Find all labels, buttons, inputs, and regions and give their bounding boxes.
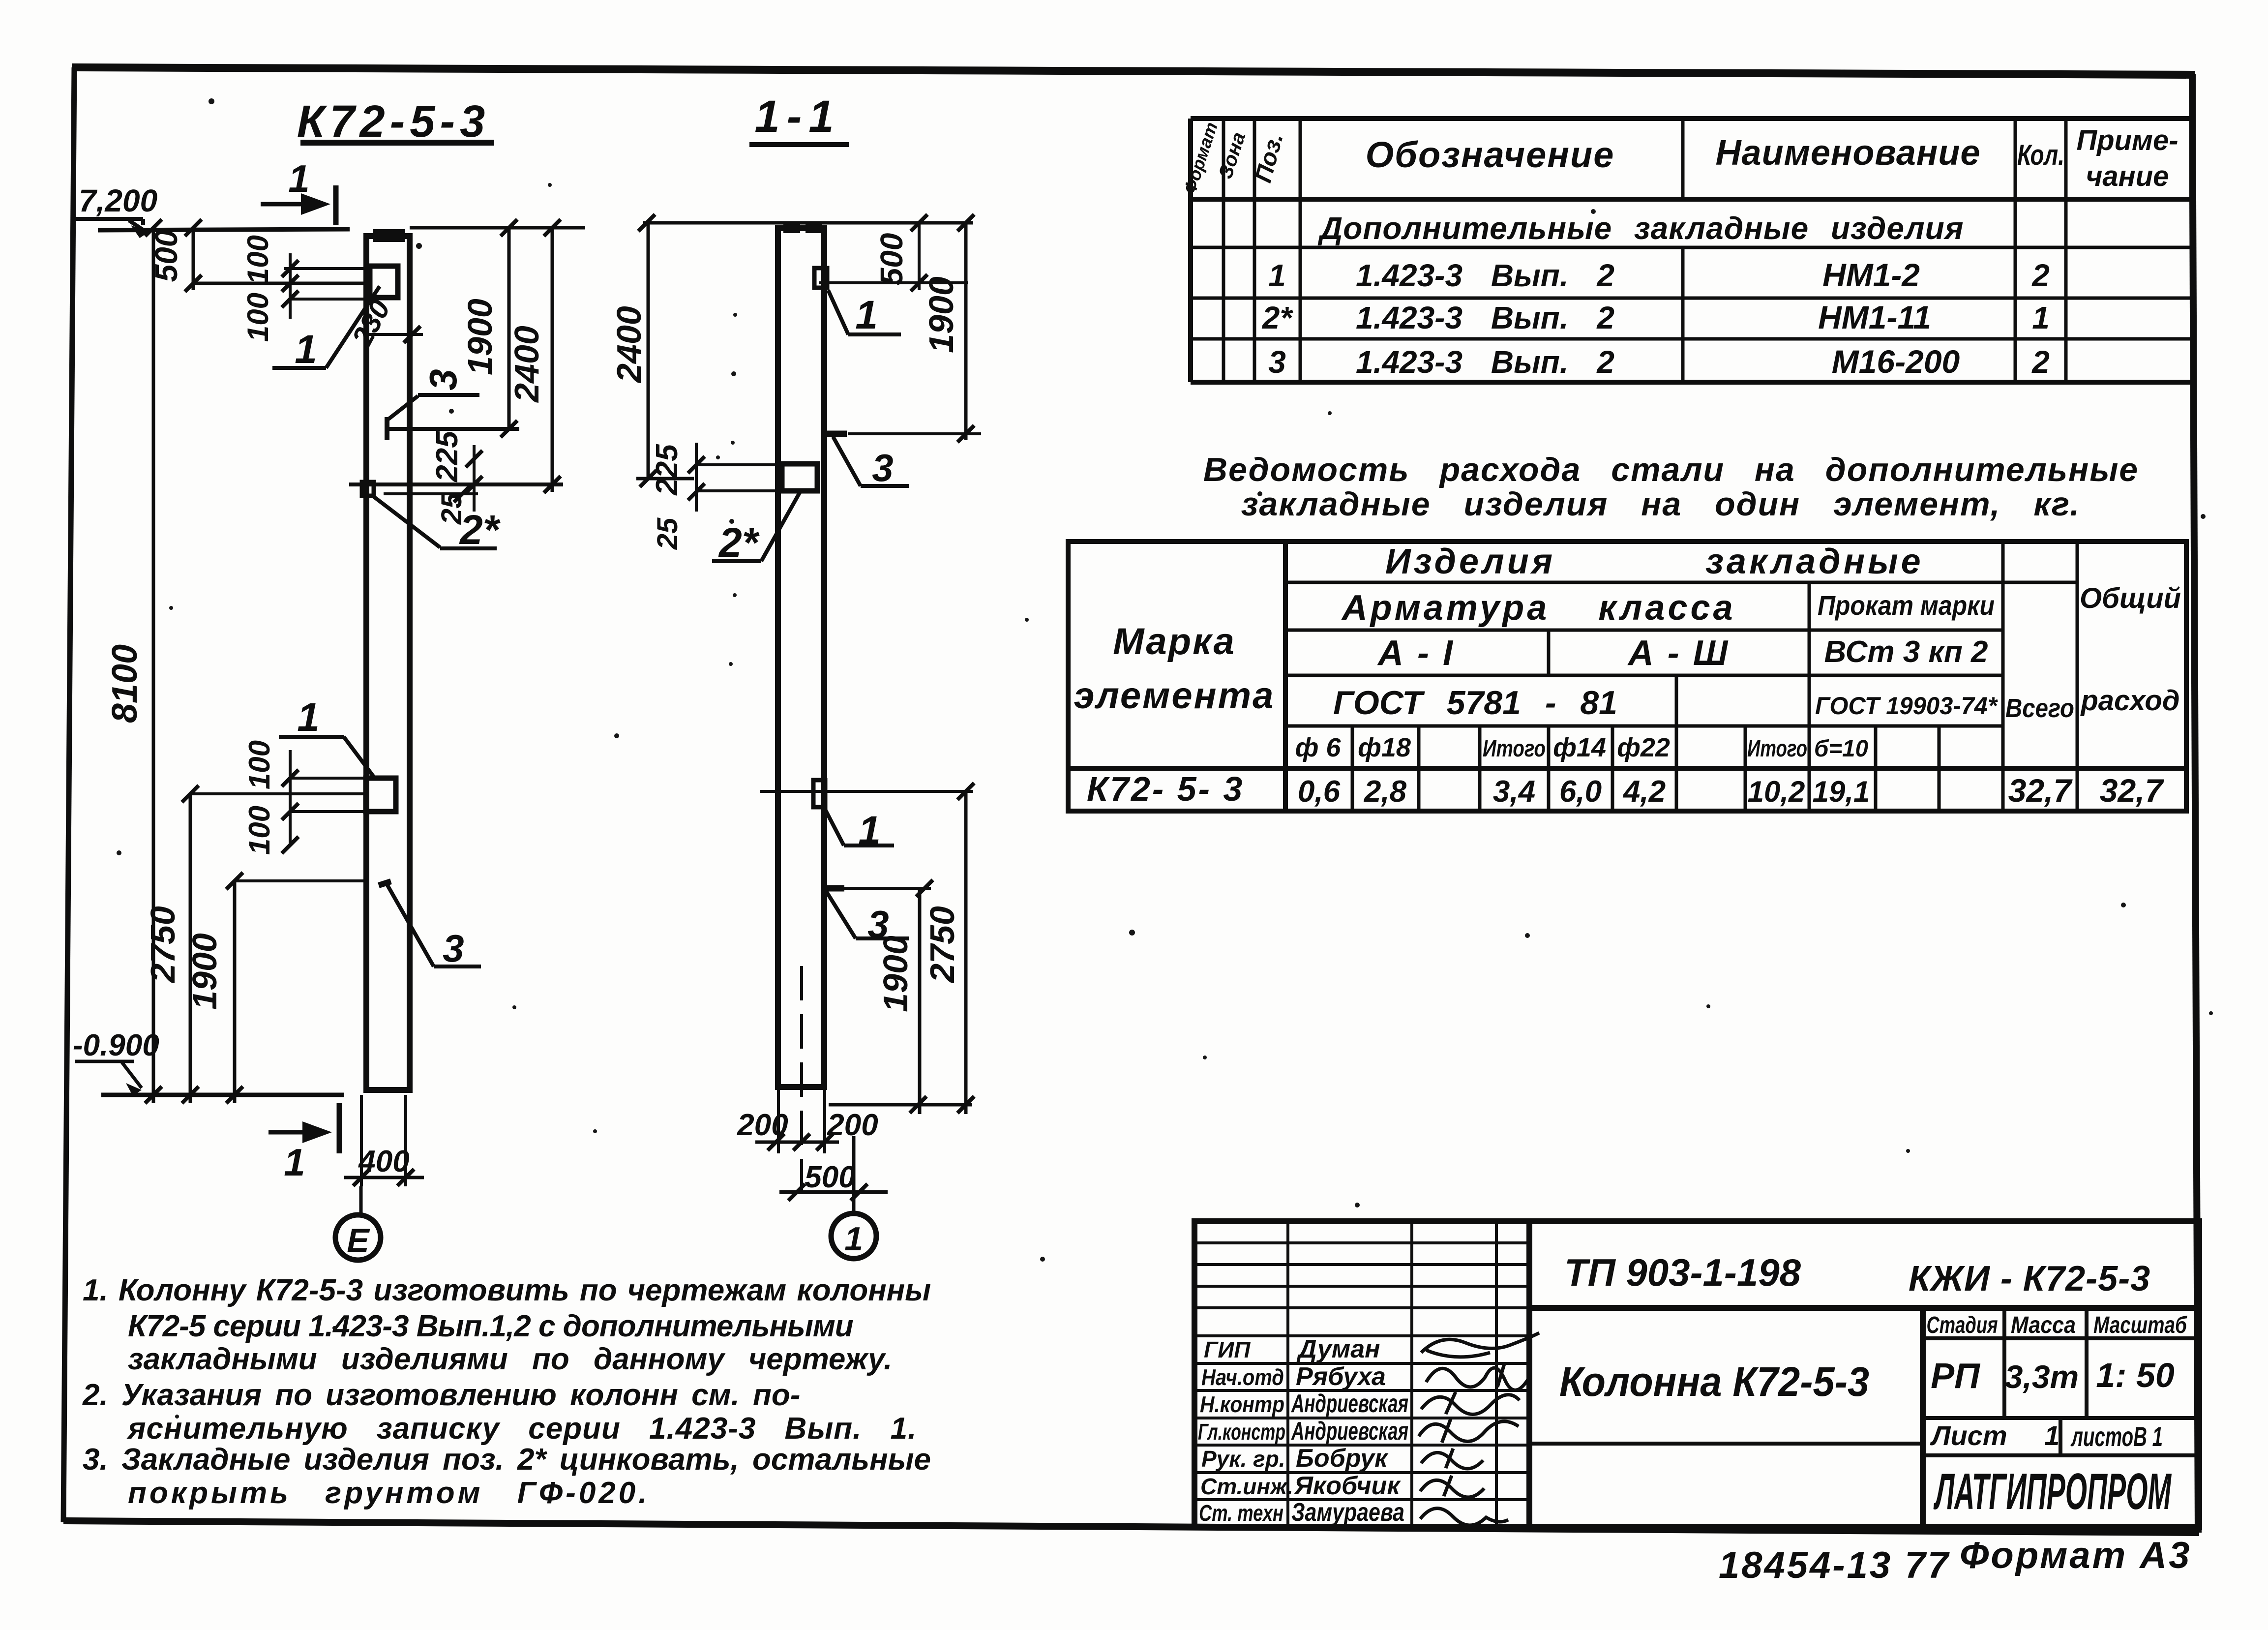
- svg-text:3. Закладные изделия поз. 2: 3. Закладные изделия поз. 2* цинковать, …: [83, 1443, 931, 1477]
- svg-text:Андриевская: Андриевская: [1291, 1417, 1408, 1446]
- svg-text:Ведомость расхода стали на доп: Ведомость расхода стали на дополнительны…: [1203, 451, 2139, 488]
- svg-text:1: 1: [2032, 300, 2050, 335]
- svg-text:К72-5 серии 1.423-3 Вып.1,2: К72-5 серии 1.423-3 Вып.1,2 с дополнител…: [128, 1309, 853, 1343]
- svg-text:Приме-: Приме-: [2076, 124, 2178, 156]
- svg-text:1900: 1900: [461, 299, 499, 375]
- svg-text:2: 2: [2031, 344, 2050, 380]
- svg-text:Изделия: Изделия: [1385, 542, 1555, 581]
- svg-text:1.423-3 Вып. 2: 1.423-3 Вып. 2: [1356, 258, 1614, 293]
- svg-text:ГОСТ 5781 - 81: ГОСТ 5781 - 81: [1333, 684, 1617, 722]
- svg-text:500: 500: [805, 1160, 855, 1194]
- svg-text:РП: РП: [1931, 1357, 1981, 1396]
- svg-text:Марка: Марка: [1113, 621, 1236, 663]
- svg-text:Ст. техн: Ст. техн: [1199, 1500, 1283, 1526]
- svg-text:18454-13 77: 18454-13 77: [1719, 1544, 1950, 1586]
- svg-text:3: 3: [421, 369, 465, 390]
- svg-text:200: 200: [737, 1108, 788, 1142]
- svg-text:Е: Е: [347, 1222, 370, 1259]
- svg-text:1.423-3 Вып. 2: 1.423-3 Вып. 2: [1356, 300, 1614, 335]
- svg-text:расход: расход: [2080, 685, 2179, 717]
- svg-text:Рябуха: Рябуха: [1296, 1362, 1386, 1391]
- svg-text:ф14: ф14: [1553, 733, 1606, 762]
- svg-text:7,200: 7,200: [79, 183, 157, 218]
- svg-text:ГОСТ 19903-74*: ГОСТ 19903-74*: [1815, 692, 1998, 720]
- svg-text:М16-200: М16-200: [1832, 343, 1960, 380]
- svg-text:Стадия: Стадия: [1927, 1312, 1998, 1338]
- svg-text:закладные изделия на один: закладные изделия на один элемент, кг.: [1241, 485, 2080, 523]
- svg-text:Арматура: Арматура: [1341, 588, 1550, 628]
- svg-text:Нач.отд: Нач.отд: [1201, 1364, 1284, 1390]
- svg-text:1: 50: 1: 50: [2096, 1356, 2175, 1394]
- svg-text:закладными изделиями по дан: закладными изделиями по данному чертежу.: [128, 1342, 892, 1376]
- svg-text:1. Колонну К72-5-3 изготови: 1. Колонну К72-5-3 изготовить по чертежа…: [83, 1273, 931, 1307]
- svg-text:НМ1-11: НМ1-11: [1818, 299, 1931, 335]
- svg-text:Замураева: Замураева: [1291, 1498, 1404, 1527]
- svg-text:100: 100: [243, 806, 276, 855]
- svg-text:1.423-3 Вып. 2: 1.423-3 Вып. 2: [1356, 344, 1614, 380]
- svg-text:1: 1: [284, 1141, 305, 1184]
- svg-text:Лист 1: Лист 1: [1930, 1420, 2059, 1451]
- svg-text:Колонна К72-5-3: Колонна К72-5-3: [1559, 1358, 1869, 1405]
- svg-text:Наименование: Наименование: [1716, 133, 1981, 173]
- svg-text:400: 400: [358, 1145, 409, 1178]
- svg-text:2400: 2400: [507, 326, 546, 403]
- svg-text:3,4: 3,4: [1493, 775, 1535, 809]
- svg-text:Общий: Общий: [2080, 582, 2181, 614]
- svg-text:Н.контр: Н.контр: [1200, 1391, 1284, 1417]
- svg-text:1: 1: [295, 327, 317, 372]
- svg-text:500: 500: [149, 230, 184, 282]
- svg-text:100: 100: [241, 235, 274, 284]
- svg-text:1900: 1900: [876, 936, 915, 1012]
- svg-text:2: 2: [2031, 258, 2050, 293]
- svg-text:8100: 8100: [105, 644, 145, 723]
- svg-text:10,2: 10,2: [1748, 775, 1805, 808]
- svg-text:3: 3: [1268, 344, 1286, 380]
- svg-text:2*: 2*: [718, 519, 760, 566]
- svg-text:0,6: 0,6: [1298, 775, 1341, 809]
- svg-text:Рук. гр.: Рук. гр.: [1201, 1446, 1285, 1472]
- svg-text:1: 1: [288, 157, 309, 200]
- svg-text:2*: 2*: [1262, 300, 1294, 335]
- svg-text:Масштаб: Масштаб: [2093, 1312, 2187, 1338]
- svg-text:А - Ш: А - Ш: [1627, 634, 1730, 673]
- svg-text:класса: класса: [1598, 588, 1735, 628]
- svg-text:ВСт 3 кп 2: ВСт 3 кп 2: [1824, 635, 1988, 669]
- svg-text:2*: 2*: [459, 507, 501, 553]
- svg-text:100: 100: [241, 293, 274, 342]
- svg-text:Ст.инж.: Ст.инж.: [1200, 1474, 1293, 1499]
- svg-text:Формат А3: Формат А3: [1960, 1535, 2192, 1576]
- svg-text:3,3т: 3,3т: [2005, 1358, 2079, 1395]
- svg-text:1: 1: [1268, 258, 1286, 293]
- svg-text:19,1: 19,1: [1813, 775, 1870, 808]
- svg-text:ТП 903-1-198: ТП 903-1-198: [1564, 1251, 1801, 1294]
- svg-text:2750: 2750: [144, 906, 182, 984]
- svg-text:Всего: Всего: [2005, 694, 2074, 723]
- svg-text:К72-5-3: К72-5-3: [297, 96, 490, 147]
- svg-text:ф22: ф22: [1617, 733, 1670, 762]
- svg-text:1: 1: [297, 695, 320, 740]
- svg-text:1-1: 1-1: [755, 91, 841, 142]
- svg-text:-0.900: -0.900: [73, 1028, 159, 1062]
- svg-text:225: 225: [430, 430, 464, 483]
- svg-text:ГИП: ГИП: [1204, 1337, 1251, 1362]
- svg-text:ф 6: ф 6: [1295, 733, 1342, 762]
- svg-text:Итого: Итого: [1483, 736, 1546, 762]
- svg-text:закладные: закладные: [1705, 542, 1923, 581]
- svg-text:225: 225: [650, 444, 684, 496]
- svg-text:Масса: Масса: [2011, 1312, 2076, 1338]
- svg-text:Дополнительные закладные издел: Дополнительные закладные изделия: [1317, 211, 1964, 246]
- svg-text:Итого: Итого: [1747, 736, 1807, 762]
- svg-text:2400: 2400: [610, 306, 648, 384]
- svg-text:2. Указания по изготовлению: 2. Указания по изготовлению колонн см. п…: [82, 1378, 800, 1412]
- svg-text:32,7: 32,7: [2100, 772, 2165, 809]
- svg-text:25: 25: [652, 517, 684, 550]
- svg-text:Гл.констр: Гл.констр: [1198, 1419, 1285, 1445]
- svg-text:32,7: 32,7: [2008, 772, 2073, 809]
- svg-text:ЛАТГИПРОПРОМ: ЛАТГИПРОПРОМ: [1933, 1463, 2172, 1520]
- svg-text:1900: 1900: [922, 276, 960, 353]
- svg-text:1: 1: [855, 293, 878, 337]
- svg-text:Андриевская: Андриевская: [1291, 1389, 1408, 1418]
- svg-text:Якобчик: Якобчик: [1293, 1472, 1401, 1500]
- svg-text:НМ1-2: НМ1-2: [1822, 257, 1920, 293]
- svg-text:1: 1: [844, 1220, 863, 1258]
- svg-text:б=10: б=10: [1814, 736, 1868, 762]
- svg-text:Бобрук: Бобрук: [1296, 1444, 1389, 1473]
- svg-text:2,8: 2,8: [1364, 775, 1407, 809]
- svg-text:яснительную записку серии 1: яснительную записку серии 1.423-3 Вып. 1…: [126, 1412, 917, 1446]
- svg-text:500: 500: [874, 233, 909, 286]
- svg-text:К72- 5- 3: К72- 5- 3: [1087, 770, 1244, 808]
- svg-text:Думан: Думан: [1296, 1335, 1380, 1363]
- svg-text:2750: 2750: [923, 906, 961, 984]
- svg-text:Прокат марки: Прокат марки: [1818, 590, 1995, 621]
- svg-text:КЖИ - К72-5-3: КЖИ - К72-5-3: [1909, 1259, 2150, 1298]
- svg-text:Кол.: Кол.: [2017, 139, 2064, 171]
- svg-text:покрыть грунтом ГФ-020.: покрыть грунтом ГФ-020.: [128, 1476, 650, 1510]
- svg-text:чание: чание: [2086, 160, 2169, 192]
- svg-text:ф18: ф18: [1358, 733, 1411, 762]
- svg-text:6,0: 6,0: [1559, 775, 1602, 809]
- svg-text:листоВ 1: листоВ 1: [2070, 1421, 2163, 1452]
- svg-text:3: 3: [443, 927, 464, 970]
- svg-text:100: 100: [243, 740, 276, 789]
- svg-text:4,2: 4,2: [1622, 775, 1666, 809]
- svg-text:элемента: элемента: [1074, 675, 1275, 717]
- svg-text:А - I: А - I: [1377, 634, 1455, 673]
- svg-text:1900: 1900: [185, 933, 224, 1010]
- svg-text:Обозначение: Обозначение: [1366, 134, 1615, 175]
- svg-text:3: 3: [872, 446, 893, 489]
